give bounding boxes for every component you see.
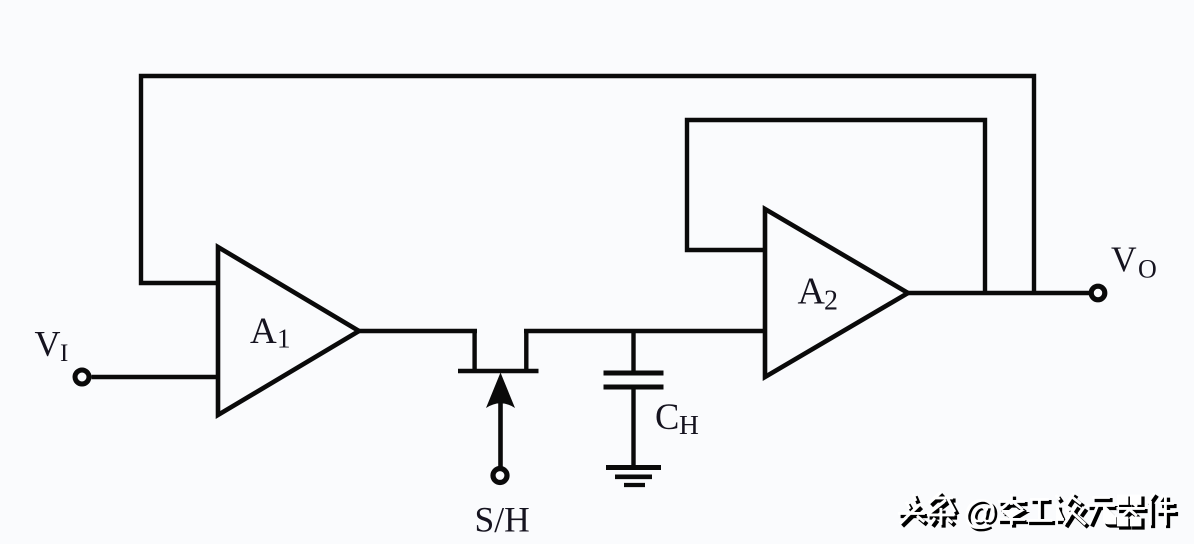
node VI input terminal [75, 370, 89, 384]
wire switch to A2 input node [524, 329, 765, 333]
svg-text:H: H [679, 409, 699, 440]
wire A1 output to switch [357, 329, 477, 333]
svg-text:1: 1 [277, 324, 291, 354]
svg-text:A: A [250, 311, 277, 352]
ground [606, 468, 661, 486]
wire A2 output [906, 291, 1090, 295]
svg-text:I: I [60, 340, 68, 367]
transistor sampling switch [458, 329, 539, 371]
op-amp A2 [765, 209, 908, 377]
node VO output terminal [1091, 286, 1105, 300]
node S/H control terminal [493, 469, 507, 483]
watermark black shadow [901, 495, 1179, 534]
svg-text:A: A [798, 271, 826, 313]
op-amp A1 [218, 247, 359, 415]
wire VI input [92, 375, 219, 379]
svg-text:V: V [35, 324, 61, 364]
svg-text:V: V [1111, 239, 1137, 279]
watermark white face [898, 492, 1176, 532]
svg-text:C: C [655, 396, 679, 437]
svg-text:2: 2 [824, 286, 838, 317]
svg-text:S/H: S/H [475, 500, 530, 540]
svg-text:O: O [1138, 255, 1157, 284]
switch gate arrow [486, 373, 515, 409]
wire inner feedback loop A2 [687, 120, 985, 293]
watermark 头条@李工谈元器件 [898, 492, 1178, 534]
wire outer feedback loop A1 [141, 76, 1034, 293]
capacitor CH [604, 331, 664, 466]
